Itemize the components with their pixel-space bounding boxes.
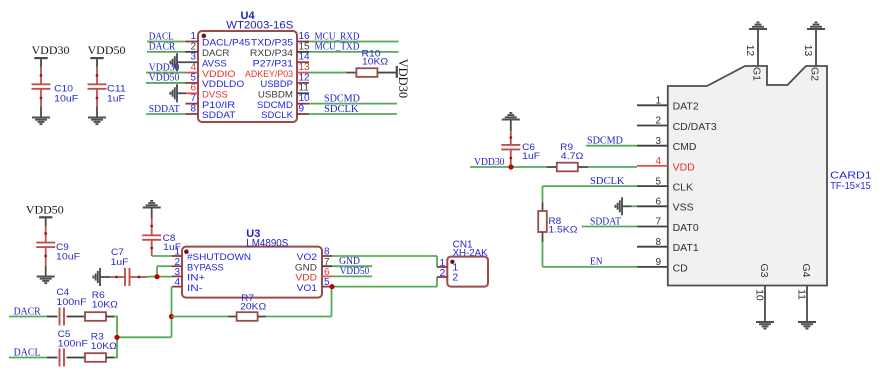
svg-text:8: 8	[655, 237, 661, 248]
svg-text:9: 9	[299, 103, 305, 114]
svg-text:DVSS: DVSS	[202, 89, 228, 100]
svg-text:VDD50: VDD50	[88, 43, 126, 57]
svg-text:MCU_TXD: MCU_TXD	[315, 41, 360, 53]
svg-text:CD: CD	[673, 262, 689, 274]
svg-text:DAT2: DAT2	[673, 101, 699, 113]
svg-text:10KΩ: 10KΩ	[362, 57, 388, 68]
svg-text:8: 8	[190, 103, 196, 114]
svg-text:100nF: 100nF	[58, 339, 88, 350]
svg-text:G2: G2	[808, 67, 820, 81]
svg-text:10uF: 10uF	[56, 252, 80, 263]
svg-text:USBDM: USBDM	[258, 89, 293, 100]
svg-text:100nF: 100nF	[56, 297, 86, 308]
svg-text:DACR: DACR	[149, 41, 176, 53]
svg-text:XH-2AK: XH-2AK	[453, 248, 488, 259]
svg-text:WT2003-16S: WT2003-16S	[226, 20, 293, 32]
svg-text:DACR: DACR	[14, 305, 42, 317]
svg-text:TF-15×15: TF-15×15	[830, 180, 871, 192]
svg-text:SDCLK: SDCLK	[590, 175, 625, 187]
svg-text:2: 2	[452, 272, 458, 284]
svg-text:ADKEY/P03: ADKEY/P03	[245, 69, 293, 80]
svg-text:10uF: 10uF	[54, 94, 78, 105]
svg-text:1: 1	[190, 31, 196, 42]
svg-text:10KΩ: 10KΩ	[91, 341, 117, 352]
svg-text:DACR: DACR	[202, 48, 230, 59]
svg-text:7: 7	[655, 217, 661, 228]
svg-text:1.5KΩ: 1.5KΩ	[548, 225, 577, 236]
svg-text:P27/P31: P27/P31	[253, 58, 293, 69]
svg-text:VDD30: VDD30	[396, 59, 410, 99]
svg-text:2: 2	[655, 116, 661, 127]
svg-text:G1: G1	[750, 67, 762, 81]
svg-text:2: 2	[439, 267, 445, 279]
svg-text:IN-: IN-	[187, 283, 203, 294]
svg-text:VDD50: VDD50	[26, 202, 64, 216]
svg-text:SDCLK: SDCLK	[324, 103, 359, 115]
svg-text:SDCMD: SDCMD	[587, 135, 623, 147]
svg-text:VDD30: VDD30	[474, 156, 505, 168]
svg-text:7: 7	[190, 93, 196, 104]
svg-text:VDD: VDD	[673, 161, 696, 173]
svg-text:1uF: 1uF	[107, 94, 125, 105]
svg-text:5: 5	[655, 176, 661, 187]
svg-text:1uF: 1uF	[522, 151, 540, 162]
svg-text:15: 15	[299, 41, 311, 52]
svg-text:4: 4	[655, 156, 661, 167]
svg-text:4.7Ω: 4.7Ω	[561, 151, 584, 162]
svg-text:12: 12	[299, 72, 311, 83]
svg-text:DACL: DACL	[14, 346, 41, 358]
svg-text:USBDP: USBDP	[260, 79, 293, 90]
svg-text:6: 6	[190, 83, 196, 94]
svg-text:G4: G4	[800, 264, 812, 278]
svg-text:VDD30: VDD30	[32, 43, 70, 57]
svg-text:6: 6	[655, 197, 661, 208]
svg-text:SDDAT: SDDAT	[202, 110, 236, 121]
svg-text:SDCMD: SDCMD	[257, 100, 293, 111]
svg-text:20KΩ: 20KΩ	[240, 301, 266, 312]
svg-text:SDDAT: SDDAT	[149, 103, 180, 115]
svg-text:VO1: VO1	[297, 283, 317, 294]
svg-text:VDDLDO: VDDLDO	[202, 79, 244, 90]
svg-text:SDDAT: SDDAT	[590, 215, 621, 227]
svg-text:DACL/P45: DACL/P45	[202, 38, 250, 49]
svg-text:CD/DAT3: CD/DAT3	[673, 121, 717, 133]
svg-text:1: 1	[655, 96, 661, 107]
svg-text:10: 10	[299, 93, 311, 104]
svg-text:16: 16	[299, 31, 311, 42]
svg-text:G3: G3	[758, 264, 770, 278]
svg-text:3: 3	[655, 136, 661, 147]
svg-text:1uF: 1uF	[111, 257, 129, 268]
svg-text:EN: EN	[590, 256, 603, 268]
svg-text:CMD: CMD	[673, 141, 697, 153]
svg-text:3: 3	[190, 52, 196, 63]
svg-text:VDDIO: VDDIO	[202, 69, 236, 80]
svg-text:VDD50: VDD50	[340, 265, 370, 277]
svg-text:TXD/P35: TXD/P35	[251, 38, 293, 49]
svg-text:14: 14	[299, 52, 311, 63]
svg-text:13: 13	[299, 62, 311, 73]
svg-text:DAT0: DAT0	[673, 222, 699, 234]
svg-text:10: 10	[754, 289, 766, 301]
svg-text:RXD/P34: RXD/P34	[250, 48, 293, 59]
svg-text:4: 4	[190, 62, 196, 73]
svg-text:13: 13	[802, 45, 814, 57]
svg-text:1uF: 1uF	[163, 242, 181, 253]
svg-text:VSS: VSS	[673, 202, 694, 214]
svg-text:AVSS: AVSS	[202, 58, 227, 69]
svg-text:12: 12	[744, 45, 756, 57]
svg-text:DAT1: DAT1	[673, 242, 699, 254]
svg-text:VDD50: VDD50	[149, 72, 180, 84]
svg-text:SDCLK: SDCLK	[261, 110, 294, 121]
svg-text:11: 11	[796, 289, 808, 300]
svg-text:5: 5	[190, 72, 196, 83]
svg-text:11: 11	[299, 83, 310, 94]
svg-text:P10/IR: P10/IR	[202, 100, 235, 111]
svg-text:2: 2	[190, 41, 196, 52]
svg-text:LM4890S: LM4890S	[246, 238, 288, 250]
svg-text:9: 9	[655, 257, 661, 268]
svg-text:CLK: CLK	[673, 182, 693, 194]
svg-text:10KΩ: 10KΩ	[92, 299, 118, 310]
